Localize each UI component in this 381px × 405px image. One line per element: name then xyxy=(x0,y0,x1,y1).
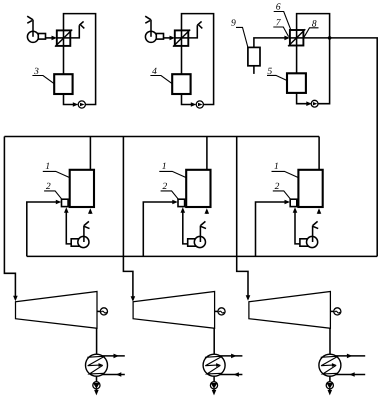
left steam pipe to turbine 1 xyxy=(4,137,17,302)
circulation pump (unit 5) xyxy=(311,100,318,107)
generator xyxy=(330,308,341,315)
label 9 xyxy=(231,19,248,47)
air intake from atmosphere (cell) xyxy=(84,221,90,242)
fan/blower (cell) xyxy=(300,236,318,247)
fan/blower (unit 4) xyxy=(145,31,163,42)
label 5 xyxy=(267,68,287,81)
air intake from atmosphere (cell) xyxy=(313,221,319,242)
wire header to boiler 1 xyxy=(89,137,91,170)
boiler box 1 xyxy=(298,170,322,207)
circulation pump (unit 3) xyxy=(78,101,85,108)
circulation loop pipe (unit 5) xyxy=(297,14,330,104)
wire turbine to condenser xyxy=(96,328,98,354)
burner box 2 xyxy=(62,199,69,206)
fuel box 9 xyxy=(248,47,260,65)
air heater cube (unit 4) xyxy=(173,30,190,47)
burner box 2 xyxy=(178,199,185,206)
air intake from atmosphere (unit 4) xyxy=(145,16,151,37)
fan/blower (cell) xyxy=(71,236,89,247)
cooling water outlet pipe xyxy=(102,354,125,359)
label 4 xyxy=(150,68,172,84)
condensate pump xyxy=(93,376,100,389)
circulation loop pipe (unit 4) xyxy=(182,14,214,105)
label 1 xyxy=(159,163,186,178)
divider pipe to turbine 3 xyxy=(237,137,251,301)
wire box 9 outlet stub xyxy=(253,66,255,74)
label 2 xyxy=(44,183,61,199)
heat consumer box 5 xyxy=(287,73,306,93)
cooling water inlet pipe xyxy=(335,372,365,377)
bottom header pipe xyxy=(27,255,377,257)
label 6 xyxy=(274,3,291,29)
heat consumer box 4 xyxy=(172,74,190,94)
wire fan to burner xyxy=(64,207,71,244)
top header pipe xyxy=(4,136,319,138)
wire turbine to condenser xyxy=(213,328,215,354)
fuel inlet arrow into boiler xyxy=(317,208,322,214)
wire fan to heater (unit 3) xyxy=(46,36,58,41)
fuel inlet arrow into boiler xyxy=(88,208,93,214)
condensate pump xyxy=(210,376,217,389)
wire header to boiler 1 xyxy=(318,137,320,170)
label 7 xyxy=(273,19,288,37)
air intake from atmosphere (cell) xyxy=(200,221,206,242)
cooling water inlet pipe xyxy=(219,372,242,377)
exhaust to atmosphere (unit 3) xyxy=(70,21,84,38)
burner box 2 xyxy=(290,199,297,206)
condensate outlet arrow xyxy=(328,389,333,396)
condensate outlet arrow xyxy=(212,389,217,396)
wire fan to heater (unit 4) xyxy=(164,36,176,41)
wire header to boiler 1 xyxy=(206,137,208,170)
steam turbine xyxy=(133,292,215,329)
wire bottom header to burner 2 xyxy=(143,200,178,257)
wire box 9 to heater 6 xyxy=(254,36,290,48)
air intake from atmosphere (unit 3) xyxy=(27,16,33,37)
wire box 3 to pump xyxy=(64,94,79,107)
label 1 xyxy=(272,163,299,178)
condenser xyxy=(203,354,225,376)
boiler box 1 xyxy=(70,170,94,207)
wire bottom header to burner 2 xyxy=(256,200,291,257)
generator xyxy=(97,308,108,315)
condensate outlet arrow xyxy=(94,389,99,396)
steam turbine xyxy=(16,292,98,329)
wire heater to box 3 xyxy=(63,46,65,74)
heat consumer box 3 xyxy=(54,74,72,94)
circulation loop pipe (unit 3) xyxy=(64,14,96,105)
label 2 xyxy=(273,183,290,199)
wire turbine to condenser xyxy=(329,328,331,354)
condensate pump xyxy=(326,376,333,389)
boiler box 1 xyxy=(186,170,210,207)
wire box 4 to pump xyxy=(182,94,197,107)
air heater cube (unit 3) xyxy=(55,30,72,47)
condenser xyxy=(86,354,108,376)
wire heater 6 to right header xyxy=(303,38,377,257)
heater cube 6 xyxy=(288,29,305,46)
wire heater to box 4 xyxy=(181,46,183,74)
circulation pump (unit 4) xyxy=(196,101,203,108)
cooling water inlet pipe xyxy=(102,372,125,377)
cooling water outlet pipe xyxy=(220,354,243,359)
label 3 xyxy=(32,68,54,84)
label 2 xyxy=(161,183,178,199)
wire bottom header to burner 2 xyxy=(27,200,62,257)
junction node xyxy=(328,36,332,40)
fan/blower (unit 3) xyxy=(27,31,45,42)
condenser xyxy=(319,354,341,376)
divider pipe to turbine 2 xyxy=(123,137,135,302)
cooling water outlet pipe xyxy=(336,354,366,359)
exhaust to atmosphere (unit 4) xyxy=(188,21,202,38)
wire fan to burner xyxy=(181,207,188,244)
fan/blower (cell) xyxy=(188,236,206,247)
label 1 xyxy=(43,163,70,178)
label 8 xyxy=(304,20,319,37)
wire heater 6 to box 5 xyxy=(296,46,298,74)
generator xyxy=(215,308,225,315)
wire box 5 to pump xyxy=(297,93,312,106)
wire fan to burner xyxy=(293,207,300,244)
steam turbine xyxy=(249,292,331,329)
fuel inlet arrow into boiler xyxy=(205,208,210,214)
